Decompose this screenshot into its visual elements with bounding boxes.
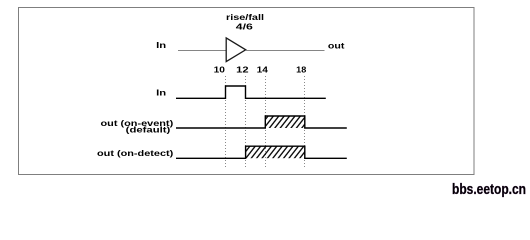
svg-text:18: 18 (296, 65, 307, 74)
wire buffer output (246, 50, 325, 52)
svg-text:12: 12 (236, 65, 249, 74)
buffer U1 (226, 38, 246, 62)
svg-text:In: In (156, 88, 166, 97)
svg-text:rise/fall: rise/fall (226, 13, 264, 22)
gridline t=18 (304, 76, 306, 169)
waveform In (pulse 10-12) (176, 86, 326, 98)
svg-text:10: 10 (214, 65, 226, 74)
hatched region out(on-event) 14-18 (265, 116, 305, 128)
waveform out (on-event) (176, 116, 347, 128)
svg-text:bbs.eetop.cn: bbs.eetop.cn (452, 182, 526, 198)
waveform out (on-detect) (176, 146, 347, 158)
svg-text:out (on-detect): out (on-detect) (97, 149, 174, 158)
svg-text:14: 14 (257, 65, 269, 74)
svg-text:(default): (default) (126, 125, 171, 134)
svg-text:out: out (328, 42, 345, 51)
svg-text:In: In (156, 41, 166, 50)
gridline t=14 (265, 76, 267, 169)
wire buffer input (178, 50, 226, 52)
hatched region out(on-detect) 12-18 (246, 146, 305, 158)
gridline t=10 (225, 76, 227, 169)
frame border (19, 8, 475, 175)
svg-text:4/6: 4/6 (236, 23, 254, 32)
gridline t=12 (245, 76, 247, 169)
